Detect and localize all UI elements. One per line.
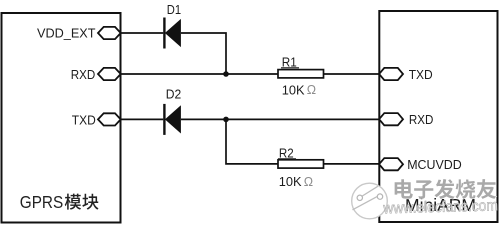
svg-text:R2: R2: [279, 145, 294, 160]
svg-text:10K: 10K: [279, 174, 302, 189]
svg-text:TXD: TXD: [72, 112, 96, 127]
svg-text:RXD: RXD: [409, 112, 434, 127]
svg-text:RXD: RXD: [71, 67, 96, 82]
svg-text:VDD_EXT: VDD_EXT: [37, 26, 96, 41]
svg-text:D2: D2: [166, 87, 182, 102]
svg-text:GPRS: GPRS: [20, 192, 63, 212]
svg-text:R1: R1: [282, 54, 297, 69]
svg-text:Ω: Ω: [307, 83, 316, 97]
svg-text:TXD: TXD: [409, 67, 433, 82]
svg-text:D1: D1: [167, 2, 181, 17]
svg-text:10K: 10K: [282, 82, 305, 97]
svg-text:www.elecfans.com: www.elecfans.com: [382, 197, 498, 217]
svg-text:MCUVDD: MCUVDD: [407, 157, 462, 172]
svg-text:Ω: Ω: [304, 175, 313, 189]
